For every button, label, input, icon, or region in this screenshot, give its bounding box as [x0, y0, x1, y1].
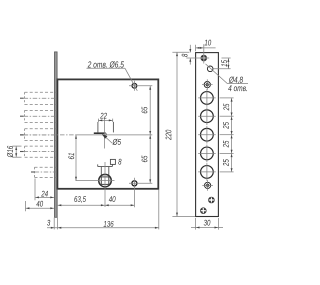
- label 30: [204, 220, 211, 226]
- extension 24: [34, 179, 36, 201]
- dimension 63.5 and 40 line: [57, 204, 134, 206]
- faceplate front outline: [196, 53, 219, 217]
- label 25 a: [223, 104, 229, 111]
- dimension 10: [196, 47, 216, 49]
- big hole 1: [201, 92, 214, 105]
- hole 6.5 top-right: [132, 83, 137, 88]
- dimension 24: [35, 196, 54, 198]
- lock case outline: [57, 79, 158, 188]
- label dia4.8: [229, 76, 243, 83]
- label dia16: [7, 146, 13, 158]
- label 8: [182, 54, 188, 57]
- centerline bottom hole: [129, 182, 152, 184]
- label 22: [100, 113, 107, 119]
- screw hole B bottom: [209, 197, 215, 203]
- dimension 220: [176, 52, 178, 216]
- label 10: [205, 40, 212, 46]
- label 220: [166, 130, 172, 140]
- hidden lever 4 (dashed): [25, 145, 57, 147]
- cup hole bottom: [205, 182, 211, 188]
- label 61: [68, 153, 74, 159]
- label 40 left: [36, 201, 43, 207]
- boss bottom edge: [94, 132, 105, 134]
- label dia5: [112, 139, 121, 145]
- label 65 bottom: [142, 156, 148, 163]
- label 2 otv 6.5: [88, 61, 124, 68]
- extension 30: [195, 218, 197, 230]
- label 40 bottom: [109, 196, 116, 202]
- leader dia5: [104, 136, 112, 144]
- leader dia4.8: [206, 64, 228, 84]
- big hole 5: [201, 166, 214, 179]
- label square 8: [110, 159, 115, 164]
- dimension 40 left: [26, 207, 55, 209]
- hole dia5: [103, 133, 106, 136]
- dimension 15: [227, 58, 229, 69]
- label 4 otv: [228, 85, 247, 91]
- label 15: [221, 60, 227, 67]
- hidden lever 1 (dashed): [25, 91, 57, 93]
- hidden lever 3 (dashed): [25, 128, 57, 130]
- cup hole top: [204, 82, 210, 88]
- dimension line dia16: [15, 146, 17, 157]
- keyhole slot sides: [100, 167, 102, 176]
- hidden slot 5 (dashed): [35, 166, 57, 168]
- square hole 8: [101, 177, 109, 185]
- dimension 22: [98, 119, 112, 121]
- boss outline: [97, 122, 99, 132]
- extension 8: [186, 57, 209, 59]
- vertical centerline of boss: [104, 118, 106, 148]
- label 25 c: [223, 141, 229, 148]
- label 136: [104, 221, 114, 227]
- extension 10: [195, 45, 197, 51]
- screw hole C bottom: [200, 208, 206, 214]
- label 3: [47, 220, 50, 226]
- big hole 4: [201, 147, 214, 160]
- label 63.5: [74, 196, 86, 203]
- label 24: [41, 191, 48, 197]
- dimension 65 65: [149, 86, 151, 184]
- dimension 61: [75, 135, 77, 181]
- screw hole A top: [201, 55, 207, 61]
- extension lines bottom: [53, 218, 55, 230]
- label 65 top: [142, 107, 148, 114]
- dimension 30: [191, 227, 223, 229]
- leader 2 holes 6.5: [87, 67, 126, 69]
- extension 40 left: [25, 201, 27, 211]
- horizontal centerline dia5: [20, 134, 24, 136]
- dimension 8: [189, 45, 191, 53]
- hidden lever 2 (dashed): [25, 109, 57, 111]
- keyhole centerlines: [104, 162, 106, 197]
- dimension chain 25: [220, 97, 234, 99]
- extension 15: [222, 57, 231, 59]
- label 25 b: [223, 122, 229, 129]
- dimension 3 and 136 line: [47, 227, 159, 229]
- hole 6.5 bottom-right: [132, 181, 137, 186]
- keyhole slot cap: [98, 166, 113, 168]
- big hole 2: [201, 110, 214, 123]
- faceplate edge (side view, 220x3): [55, 52, 58, 217]
- centerline top hole: [129, 85, 152, 87]
- big hole 3: [201, 128, 214, 141]
- label 25 d: [223, 159, 229, 166]
- follower circle dia16: [99, 174, 112, 187]
- hole 4.8 with leader: [207, 66, 213, 72]
